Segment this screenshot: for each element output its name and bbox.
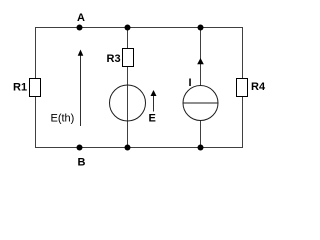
svg-text:R3: R3 [107, 53, 121, 65]
svg-text:B: B [78, 157, 86, 169]
svg-text:R4: R4 [251, 81, 266, 93]
svg-text:E(th): E(th) [51, 113, 75, 125]
svg-text:A: A [77, 12, 85, 24]
svg-text:R1: R1 [13, 82, 27, 94]
svg-text:I: I [189, 77, 192, 89]
svg-text:E: E [149, 113, 156, 125]
